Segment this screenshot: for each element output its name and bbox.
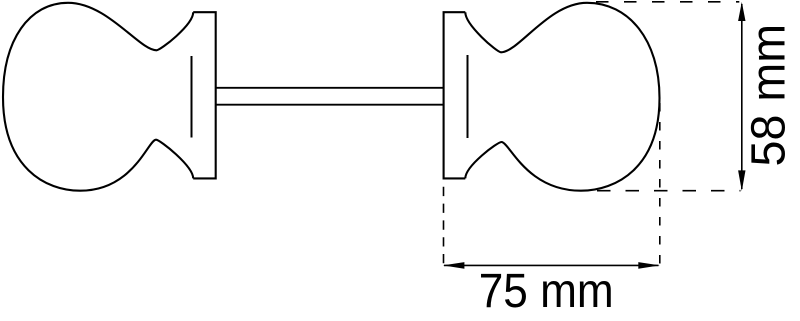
- svg-text:75 mm: 75 mm: [479, 265, 614, 318]
- svg-text:58 mm: 58 mm: [743, 24, 796, 167]
